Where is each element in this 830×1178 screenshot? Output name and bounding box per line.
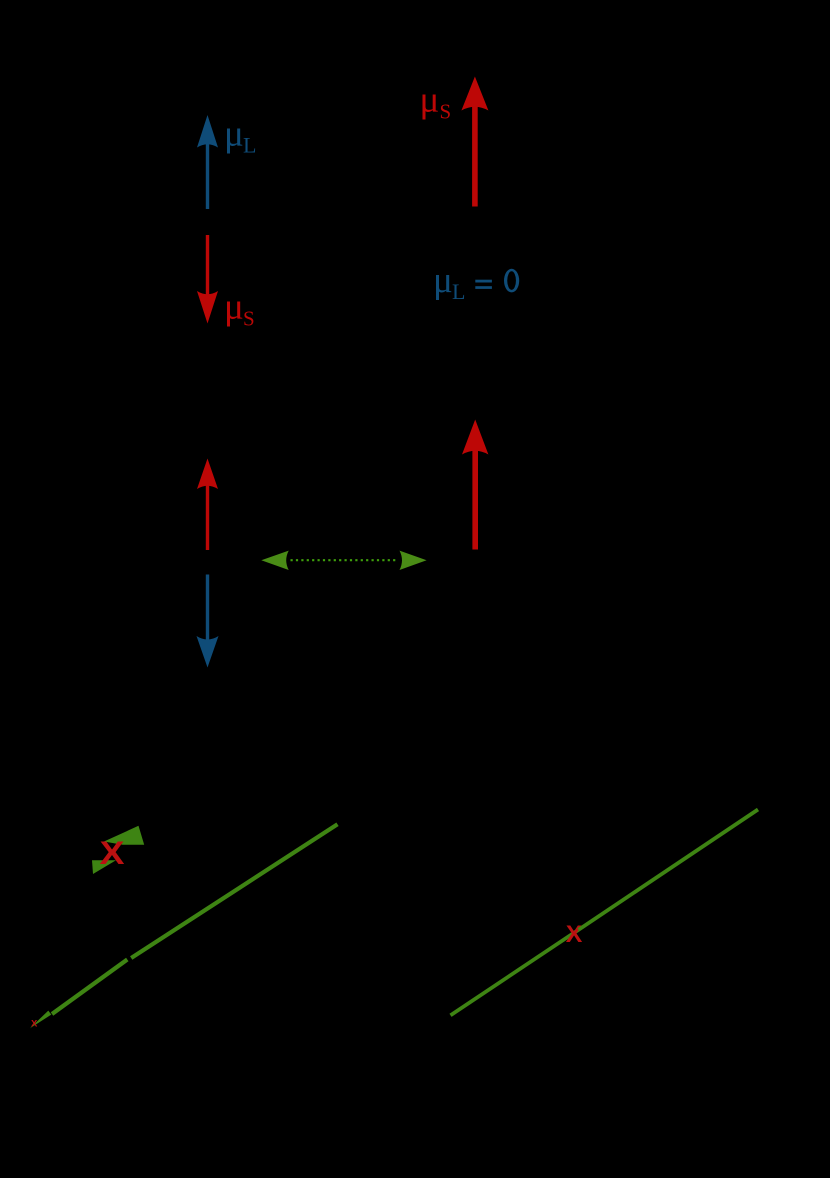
svg-text:X: X xyxy=(100,835,125,871)
arrow blue down (middle-left atom) xyxy=(197,575,219,668)
svg-text:L: L xyxy=(452,279,465,304)
arrow red up (middle-right atom, thick) xyxy=(462,420,488,550)
label muS (red) xyxy=(224,287,255,331)
svg-text:μ: μ xyxy=(420,80,440,121)
arrow muS red down (top-left atom) xyxy=(197,235,218,324)
label muS (red, top-right) xyxy=(420,80,452,124)
label muL = 0 (blue) xyxy=(433,260,519,304)
svg-text:μ: μ xyxy=(433,260,453,301)
green wedge lower (near big X) xyxy=(92,860,116,874)
svg-text:L: L xyxy=(243,133,256,158)
svg-text:X: X xyxy=(31,1019,38,1030)
right beam line lower half (green, lower-right panel) xyxy=(451,930,579,1016)
svg-text:S: S xyxy=(243,307,255,331)
green dotted double-headed arrow xyxy=(261,551,426,570)
svg-text:μ: μ xyxy=(224,114,244,155)
green wedge upper (near big X) xyxy=(104,826,144,845)
arrow muL blue up (top-left atom) xyxy=(197,115,218,209)
right beam line upper half (green) xyxy=(579,810,759,930)
svg-text:μ: μ xyxy=(224,287,244,328)
svg-text:S: S xyxy=(440,100,452,124)
arrow red up (middle-left atom) xyxy=(197,459,218,551)
left beam line (green, lower-left panel) xyxy=(30,824,338,1028)
svg-text:X: X xyxy=(566,921,583,948)
label muL (blue) xyxy=(224,114,256,158)
arrow muS red up (top-right atom, thick) xyxy=(461,77,488,207)
